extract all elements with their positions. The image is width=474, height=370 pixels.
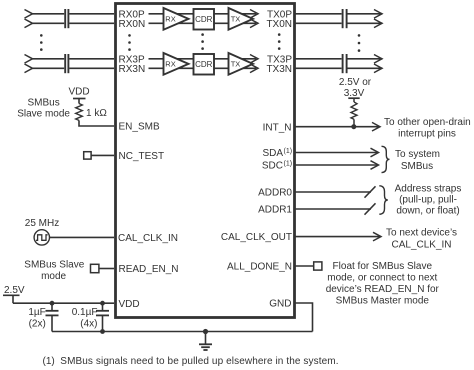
svg-text:TX: TX xyxy=(231,60,241,69)
wire ALL_DONE_N xyxy=(296,265,314,267)
svg-text:25 MHz: 25 MHz xyxy=(25,218,59,229)
capacitor C1 1uF bypass xyxy=(46,303,59,331)
amplifier TX channel 0 xyxy=(229,8,254,30)
wire SDA xyxy=(296,148,379,157)
svg-text:0.1µF: 0.1µF xyxy=(72,307,98,318)
terminal ALL_DONE_N open square xyxy=(314,262,322,270)
svg-text:To other open-drain: To other open-drain xyxy=(384,117,471,128)
resistor R2 open-drain pull-up xyxy=(351,102,357,119)
junction INT_N pull-up xyxy=(351,124,356,129)
svg-text:CDR: CDR xyxy=(195,60,213,69)
wire CAL_CLK_OUT xyxy=(296,232,382,241)
wire VDD rail xyxy=(13,302,114,304)
svg-text:ADDR0: ADDR0 xyxy=(258,188,292,199)
svg-text:(2x): (2x) xyxy=(29,318,46,329)
svg-text:mode: mode xyxy=(41,271,66,282)
svg-text:TX3N: TX3N xyxy=(266,64,292,75)
capacitor AC-coupling output pair 3 xyxy=(343,54,347,73)
svg-text:down, or float): down, or float) xyxy=(396,206,459,217)
wire RX0N external xyxy=(25,19,115,28)
terminal READ_EN_N open square xyxy=(91,264,99,272)
svg-text:VDD: VDD xyxy=(119,299,140,310)
capacitor C2 0.1uF bypass xyxy=(96,303,109,331)
wire EN_SMB xyxy=(79,120,114,126)
arrow TX0N internal xyxy=(250,19,258,28)
wire INT_N xyxy=(296,122,381,131)
capacitor AC-coupling input pair 3 xyxy=(65,54,68,73)
svg-text:SDA: SDA xyxy=(262,148,283,159)
wire channel3 internal P xyxy=(149,58,257,60)
chip U1 body xyxy=(116,4,295,318)
svg-text:GND: GND xyxy=(269,299,291,310)
arrow TX3P internal xyxy=(250,55,258,64)
svg-text:2.5V or: 2.5V or xyxy=(339,77,372,88)
svg-text:TX0N: TX0N xyxy=(266,19,292,30)
note to system SMBus xyxy=(395,149,440,172)
wire TX0N external xyxy=(296,19,383,28)
svg-text:VDD: VDD xyxy=(68,87,89,98)
resistor R1 1 kOhm pull-up xyxy=(76,104,83,121)
svg-text:Address straps: Address straps xyxy=(395,184,462,195)
wire GND pin to ground rail xyxy=(294,303,313,332)
svg-text:1 kΩ: 1 kΩ xyxy=(86,108,107,119)
amplifier TX channel 3 xyxy=(229,53,254,75)
svg-text:1µF: 1µF xyxy=(28,307,45,318)
svg-text:mode, or connect to next: mode, or connect to next xyxy=(327,273,437,284)
svg-text:RX0N: RX0N xyxy=(119,19,146,30)
terminal NC_TEST open square xyxy=(84,152,91,159)
junction VDD rail / C2 xyxy=(100,301,105,306)
svg-text:ALL_DONE_N: ALL_DONE_N xyxy=(227,262,292,273)
wire channel0 internal P xyxy=(149,13,257,15)
power VDD supply symbol xyxy=(68,87,89,104)
wire CAL_CLK_IN xyxy=(50,236,115,238)
svg-text:CAL_CLK_OUT: CAL_CLK_OUT xyxy=(221,232,292,243)
svg-text:interrupt pins: interrupt pins xyxy=(398,129,456,140)
svg-text:EN_SMB: EN_SMB xyxy=(119,122,160,133)
power 2.5V or 3.3V supply symbol xyxy=(339,77,372,102)
svg-text:2.5V: 2.5V xyxy=(4,285,25,296)
wire TX0P external xyxy=(296,10,383,19)
svg-text:(pull-up, pull-: (pull-up, pull- xyxy=(399,195,457,206)
block CDR channel 3 xyxy=(194,54,215,75)
wire ADDR1 with strap slash xyxy=(296,203,376,214)
arrow TX0P internal xyxy=(250,10,258,19)
ellipsis dots outer-right channels xyxy=(358,34,361,52)
svg-text:CDR: CDR xyxy=(195,15,213,24)
svg-text:Slave mode: Slave mode xyxy=(17,108,70,119)
wire RX3P external xyxy=(25,55,115,64)
wire RX3N external xyxy=(25,64,115,73)
wire ground rail xyxy=(52,331,313,333)
wire ADDR0 with strap slash xyxy=(296,186,376,197)
svg-text:To system: To system xyxy=(395,149,440,160)
svg-text:ADDR1: ADDR1 xyxy=(258,205,292,216)
svg-text:SMBus Slave: SMBus Slave xyxy=(24,260,84,271)
pin label SDA(1) xyxy=(262,148,292,159)
junction ground rail / ground symbol xyxy=(203,329,208,334)
svg-text:(1): (1) xyxy=(43,356,55,367)
wire RX0P external xyxy=(25,10,115,19)
wire R2 to INT_N xyxy=(353,119,355,126)
note to next device's CAL_CLK_IN xyxy=(386,228,457,251)
ellipsis dots center channels xyxy=(201,33,204,50)
svg-text:RX: RX xyxy=(165,15,175,24)
brace SMBus group xyxy=(382,146,390,172)
junction VDD rail / C1 xyxy=(50,301,55,306)
capacitor AC-coupling input pair 0 xyxy=(65,9,68,28)
value label 1uF (2x) xyxy=(28,307,45,330)
note SMBus Slave mode (EN_SMB) xyxy=(17,97,70,119)
brace address straps group xyxy=(379,186,388,214)
svg-text:SMBus: SMBus xyxy=(27,97,59,108)
svg-text:NC_TEST: NC_TEST xyxy=(119,151,165,162)
svg-text:device’s READ_EN_N for: device’s READ_EN_N for xyxy=(326,284,440,295)
footnote (1) SMBus pull-up note xyxy=(43,356,339,367)
ellipsis dots inner-left channels xyxy=(128,34,131,51)
note SMBus Slave mode (READ_EN_N) xyxy=(24,260,84,282)
wire NC_TEST xyxy=(91,154,114,156)
svg-text:(1): (1) xyxy=(284,148,293,155)
capacitor AC-coupling output pair 0 xyxy=(343,9,347,28)
note address straps xyxy=(395,184,462,217)
arrow TX3N internal xyxy=(250,64,258,73)
oscillator X1 25 MHz clock source xyxy=(34,230,49,245)
wire READ_EN_N xyxy=(99,268,114,270)
amplifier RX channel 3 xyxy=(164,53,189,75)
svg-text:(4x): (4x) xyxy=(80,318,97,329)
note to other open-drain interrupt pins xyxy=(384,117,471,139)
wire channel0 internal N xyxy=(149,22,257,24)
wire SDC xyxy=(296,161,379,170)
svg-text:SDC: SDC xyxy=(262,161,283,172)
value label 0.1uF (4x) xyxy=(72,307,98,330)
svg-text:READ_EN_N: READ_EN_N xyxy=(119,264,179,275)
svg-text:SMBus signals need to be pulle: SMBus signals need to be pulled up elsew… xyxy=(60,356,338,367)
ellipsis dots outer-left channels xyxy=(40,34,43,51)
svg-text:RX: RX xyxy=(165,60,175,69)
svg-text:(1): (1) xyxy=(284,160,293,167)
wire channel3 internal N xyxy=(149,67,257,69)
svg-text:CAL_CLK_IN: CAL_CLK_IN xyxy=(391,239,451,250)
svg-text:To next device’s: To next device’s xyxy=(386,228,457,239)
power 2.5V supply symbol xyxy=(3,285,25,303)
ground symbol xyxy=(199,332,212,351)
junction ground rail / C2 xyxy=(100,329,105,334)
svg-text:INT_N: INT_N xyxy=(263,122,292,133)
amplifier RX channel 0 xyxy=(164,8,189,30)
svg-text:CAL_CLK_IN: CAL_CLK_IN xyxy=(118,233,178,244)
pin label SDC(1) xyxy=(262,160,292,171)
block CDR channel 0 xyxy=(194,9,215,30)
svg-text:RX3N: RX3N xyxy=(119,64,146,75)
wire TX3N external xyxy=(296,64,383,73)
svg-text:TX: TX xyxy=(231,15,241,24)
note float for SMBus slave mode xyxy=(326,261,440,307)
ellipsis dots inner-right channels xyxy=(278,33,281,50)
svg-text:Float for SMBus Slave: Float for SMBus Slave xyxy=(333,261,433,272)
svg-text:SMBus Master mode: SMBus Master mode xyxy=(336,296,430,307)
svg-text:SMBus: SMBus xyxy=(401,161,433,172)
wire TX3P external xyxy=(296,55,383,64)
